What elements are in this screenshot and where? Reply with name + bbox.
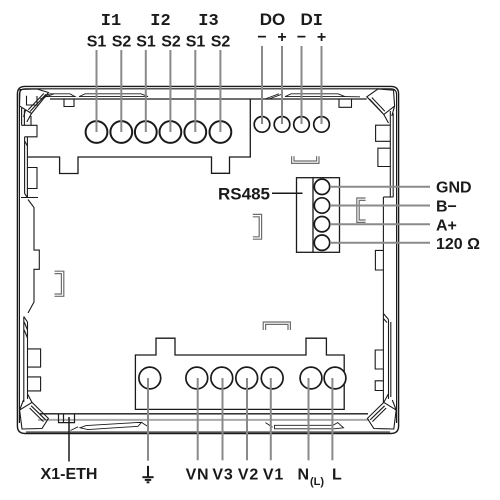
terminal N [300, 367, 322, 389]
clip bracket left face [55, 271, 64, 296]
housing right band lower [375, 197, 391, 403]
svg-text:S2: S2 [161, 34, 181, 51]
svg-text:S1: S1 [136, 34, 156, 51]
clip bracket mid face [253, 214, 262, 239]
svg-text:L: L [332, 467, 342, 484]
svg-text:I3: I3 [198, 12, 218, 31]
wire leaders from S labels to current terminals [97, 50, 221, 132]
svg-text:+: + [317, 29, 326, 46]
housing top band shading blades right [265, 94, 360, 99]
device housing second outline (left, top, right) [19, 89, 396, 423]
RS485 connector block [297, 178, 340, 253]
terminal B- [314, 198, 329, 213]
RS485 block divider [312, 178, 314, 253]
voltage terminal block outline [135, 338, 344, 409]
svg-text:VN: VN [186, 467, 210, 484]
terminal I1-S2 [110, 121, 132, 143]
wire leaders from DO/DI signs to terminals [262, 46, 322, 124]
terminal DO+ [274, 117, 290, 133]
svg-text:V3: V3 [212, 467, 233, 484]
housing left band upper [21, 108, 38, 198]
wire leaders bottom terminals [148, 378, 332, 461]
housing top band hanging tab right [339, 99, 352, 107]
housing bottom band shading blade right [266, 423, 344, 429]
housing top band shading blades left [40, 94, 148, 99]
terminal V3 [211, 367, 233, 389]
terminal 120ohm [314, 235, 329, 250]
ground symbol [142, 466, 153, 483]
wire X1-ETH leader [68, 417, 70, 462]
svg-text:I2: I2 [150, 12, 170, 31]
terminal I2-S1 [135, 121, 157, 143]
svg-text:S1: S1 [186, 34, 206, 51]
corner chamfer top-left [20, 89, 49, 122]
svg-text:DO: DO [260, 10, 286, 29]
terminal I3-S1 [184, 121, 206, 143]
terminal DI- [294, 117, 310, 133]
wire leader 120ohm [330, 242, 430, 244]
corner chamfer bottom-left [20, 394, 49, 429]
svg-text:−: − [257, 29, 266, 46]
wire leader A+ [330, 223, 430, 225]
svg-text:S1: S1 [87, 34, 107, 51]
svg-text:B−: B− [436, 199, 457, 216]
bottom inner face edge [40, 413, 368, 415]
svg-text:DI: DI [301, 10, 323, 31]
svg-text:X1-ETH: X1-ETH [41, 466, 98, 483]
svg-text:+: + [277, 29, 286, 46]
wire leader GND [330, 186, 430, 188]
terminal A+ [314, 217, 329, 232]
bottom band gray shading line [38, 419, 369, 421]
terminal DO- [254, 117, 270, 133]
terminal V1 [261, 367, 283, 389]
housing bottom band shading blade left [71, 422, 150, 430]
current input terminal block outline [27, 99, 250, 174]
svg-text:N: N [298, 467, 310, 484]
terminal L [324, 367, 346, 389]
svg-text:A+: A+ [436, 218, 457, 235]
svg-text:120 Ω: 120 Ω [436, 236, 480, 253]
svg-text:S2: S2 [112, 34, 132, 51]
device housing outer outline [17, 86, 398, 433]
clip below DO/DI [292, 156, 319, 163]
terminal I2-S2 [160, 121, 182, 143]
svg-text:−: − [297, 29, 306, 46]
svg-text:V2: V2 [238, 467, 259, 484]
terminal PE (functional earth) [139, 367, 161, 389]
clip above voltage block [263, 322, 290, 330]
svg-text:GND: GND [436, 180, 472, 197]
terminal I3-S2 [210, 121, 232, 143]
terminal V2 [236, 367, 258, 389]
top inner face edge [50, 98, 367, 100]
device housing bottom edge thickness [26, 431, 390, 433]
svg-text:I1: I1 [101, 12, 121, 31]
wire RS485 label leader [272, 192, 303, 194]
housing right band upper [376, 111, 394, 197]
terminal GND [314, 179, 329, 194]
svg-text:(L): (L) [310, 476, 324, 488]
corner chamfer bottom-right [367, 394, 396, 429]
housing left mid wall [28, 200, 39, 314]
wire leader B- [330, 205, 430, 207]
svg-text:RS485: RS485 [218, 185, 270, 204]
svg-text:S2: S2 [211, 34, 231, 51]
housing top band hanging tab left [64, 99, 74, 107]
housing left band lower [24, 317, 41, 402]
clip bracket right face [357, 198, 366, 222]
terminal VN [186, 367, 208, 389]
svg-text:V1: V1 [263, 467, 284, 484]
terminal DI+ [314, 117, 330, 133]
X1-ETH port tab [59, 414, 75, 423]
terminal I1-S1 [86, 121, 108, 143]
corner chamfer top-right [367, 89, 395, 123]
